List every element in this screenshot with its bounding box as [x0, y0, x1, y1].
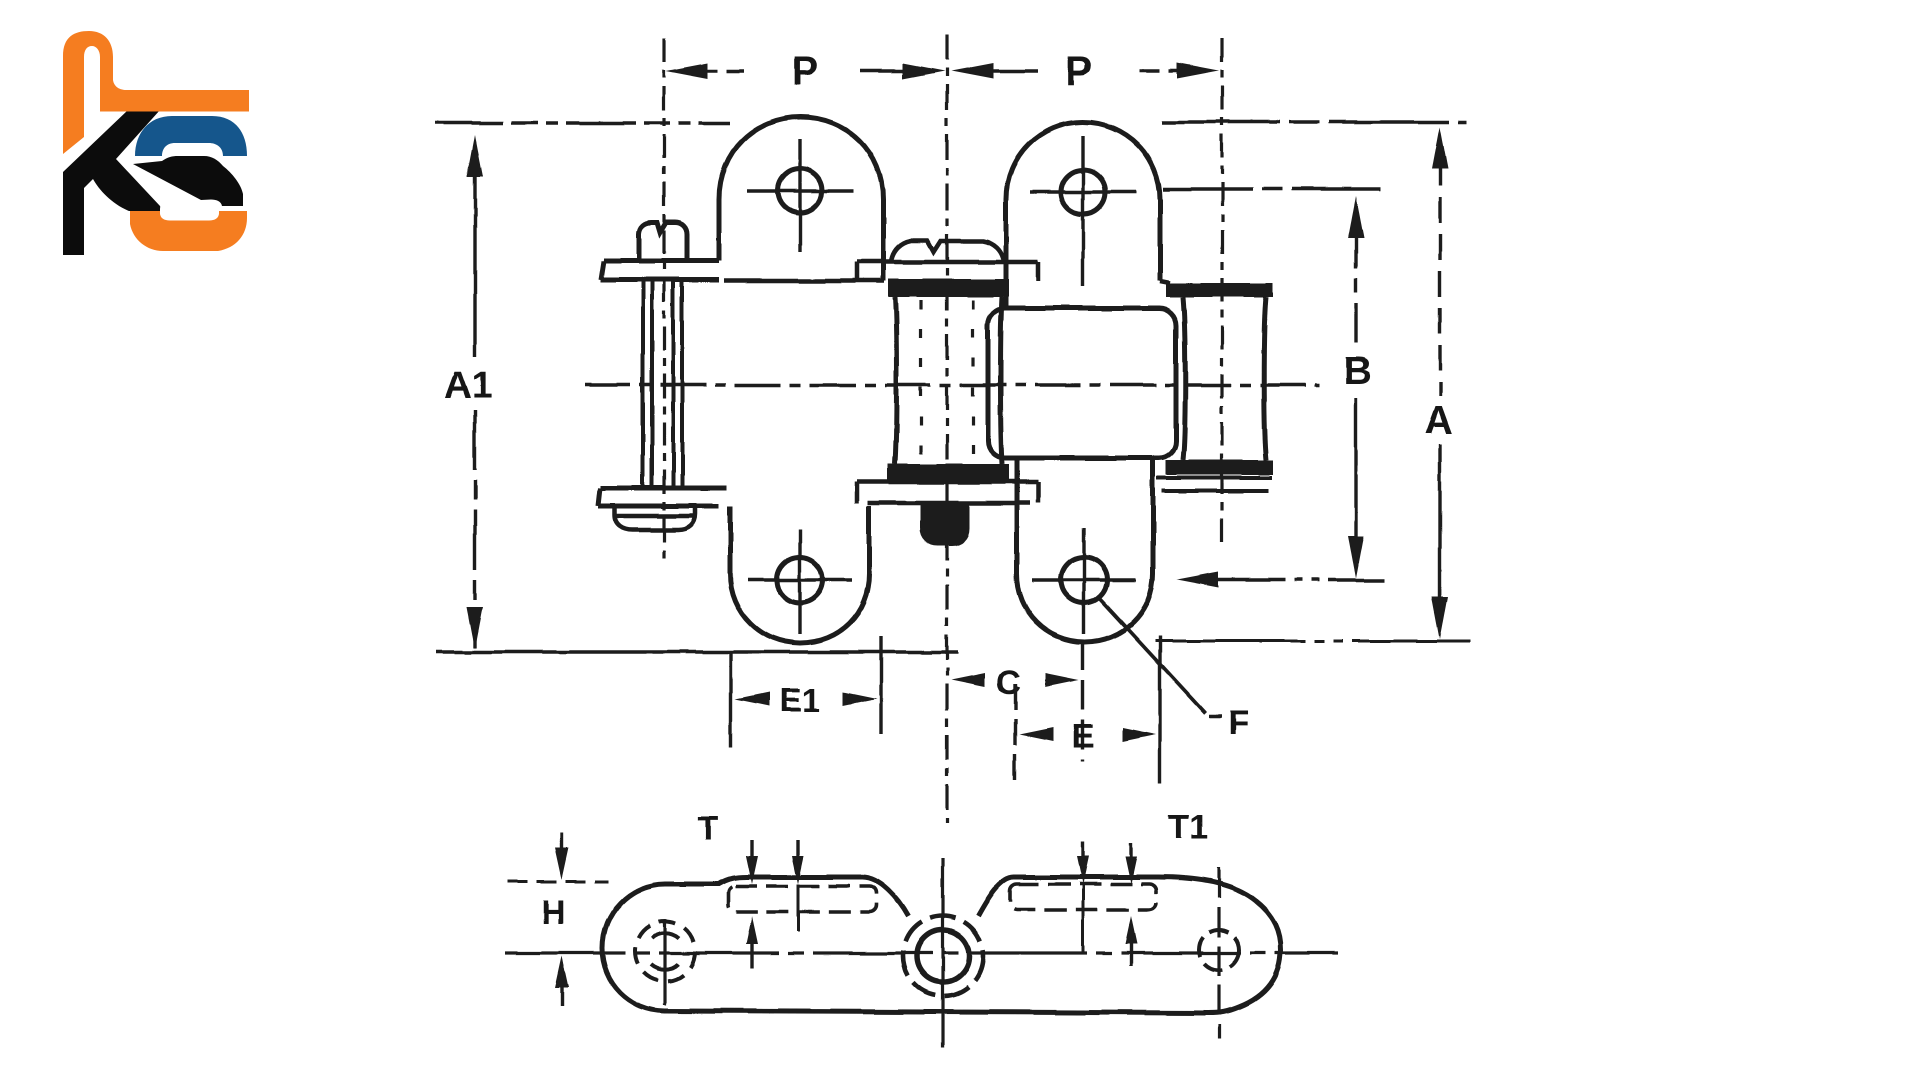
svg-text:T: T: [697, 810, 718, 848]
svg-text:A1: A1: [444, 365, 493, 407]
dome 2 hole crosshair: [1030, 136, 1137, 287]
dimension E1 arrows: [735, 692, 877, 706]
left pin body: [643, 281, 682, 487]
svg-text:E1: E1: [779, 682, 821, 720]
centerline left pin vertical: [662, 38, 665, 562]
attachment dome tab 1: [719, 117, 883, 281]
left pin bottom rivet nut: [615, 506, 695, 530]
plan view center roller hole: [917, 930, 969, 982]
middle top plate: [857, 262, 1038, 281]
right roller bottom flange: [1166, 460, 1273, 475]
middle pin head: [891, 241, 1004, 262]
dimension E1 extension lines: [731, 636, 881, 748]
dimension E arrows: [1019, 727, 1156, 741]
dimension C extension line: [1081, 640, 1084, 762]
dimension A line with arrows: [1432, 127, 1448, 639]
plan view hidden slot 1: [728, 886, 876, 912]
right link top edge to roller: [1160, 281, 1170, 283]
plate edge line under dome 1: [724, 279, 884, 284]
inverted dome tab 2: [1017, 458, 1153, 642]
svg-text:A: A: [1424, 398, 1453, 442]
inverted dome 2 hole: [1061, 557, 1107, 603]
middle roller top flange: [888, 279, 1009, 297]
logo black middle band of S: [133, 156, 243, 206]
attachment dome tab 2: [1006, 122, 1160, 308]
svg-text:P: P: [1066, 49, 1093, 93]
plan view hidden slot 2: [1010, 884, 1156, 910]
plan view center roller boss outer: [903, 916, 983, 996]
right link bottom plate edge: [1157, 478, 1272, 491]
dome 1 hole crosshair: [747, 139, 853, 252]
plan view body outline: [602, 877, 1281, 1013]
middle roller body: [895, 297, 1002, 464]
svg-text:P: P: [792, 49, 819, 93]
left pin head: [639, 222, 687, 261]
plan view center vertical centerline: [941, 858, 944, 1048]
plan view left pin centerline: [663, 922, 666, 1005]
dimension A bottom reference line: [1155, 640, 1470, 643]
inverted dome tab 1: [730, 506, 869, 643]
right roller body: [1183, 297, 1266, 460]
centerline right roller vertical: [1220, 38, 1223, 545]
plan view right hole centerline: [1217, 868, 1220, 1038]
dimension P right: [951, 63, 1219, 79]
dimension B reference top line: [1163, 187, 1384, 190]
dimension A reference top line: [1161, 120, 1466, 123]
dimension T1 arrows: [1077, 842, 1137, 966]
logo KS: [63, 31, 249, 255]
left pin link top plate: [601, 261, 719, 280]
dimension H extension dashes: [508, 881, 608, 884]
dimension H arrows: [555, 833, 569, 1006]
dimension A1 reference top line: [434, 121, 730, 124]
dimension B line with arrows: [1348, 196, 1364, 578]
logo orange hook and bar: [63, 31, 249, 154]
dimension A1 reference bottom line: [436, 650, 958, 653]
inverted dome 1 hole crosshair: [748, 530, 852, 634]
technical drawing: [434, 34, 1470, 1048]
dimension A1 line with arrows: [467, 135, 483, 649]
dimension P left: [666, 63, 945, 79]
centerline middle pin vertical: [945, 34, 948, 823]
centerline horizontal front view: [585, 383, 1320, 387]
plan view left pin inner detail: [651, 933, 679, 970]
svg-text:E: E: [1072, 718, 1095, 756]
logo black K: [63, 110, 162, 255]
dome 2 hole: [1061, 170, 1105, 214]
svg-text:F: F: [1228, 704, 1249, 742]
dimension T arrows: [746, 840, 804, 968]
plan view horizontal centerline: [505, 951, 1338, 954]
logo blue top band of S: [135, 116, 247, 156]
middle bottom plate: [857, 482, 1038, 503]
right link waist plate (rounded): [988, 308, 1176, 458]
dimension B bottom reference line: [1177, 572, 1384, 588]
inverted dome 2 hole crosshair: [1032, 528, 1136, 634]
middle bottom rivet nut: [922, 505, 968, 544]
logo white counter of S bottom: [160, 201, 219, 220]
right roller top flange: [1166, 283, 1273, 297]
plan view right hole circle: [1199, 930, 1239, 970]
inverted dome 1 hole: [777, 557, 823, 603]
svg-text:H: H: [541, 894, 566, 932]
middle roller hidden bushing lines: [921, 300, 973, 463]
dimension C arrows: [951, 673, 1079, 687]
dimension E extension lines: [1013, 684, 1016, 784]
svg-text:B: B: [1343, 349, 1372, 393]
dome 1 hole: [778, 169, 822, 213]
leader line F: [1097, 596, 1222, 716]
svg-text:T1: T1: [1168, 808, 1208, 846]
svg-text:C: C: [996, 664, 1021, 702]
left pin link bottom plate: [598, 488, 727, 506]
logo orange bottom band of S: [130, 211, 247, 251]
middle roller bottom flange: [888, 464, 1009, 481]
plan view left pin hole dashed circle: [635, 921, 695, 981]
